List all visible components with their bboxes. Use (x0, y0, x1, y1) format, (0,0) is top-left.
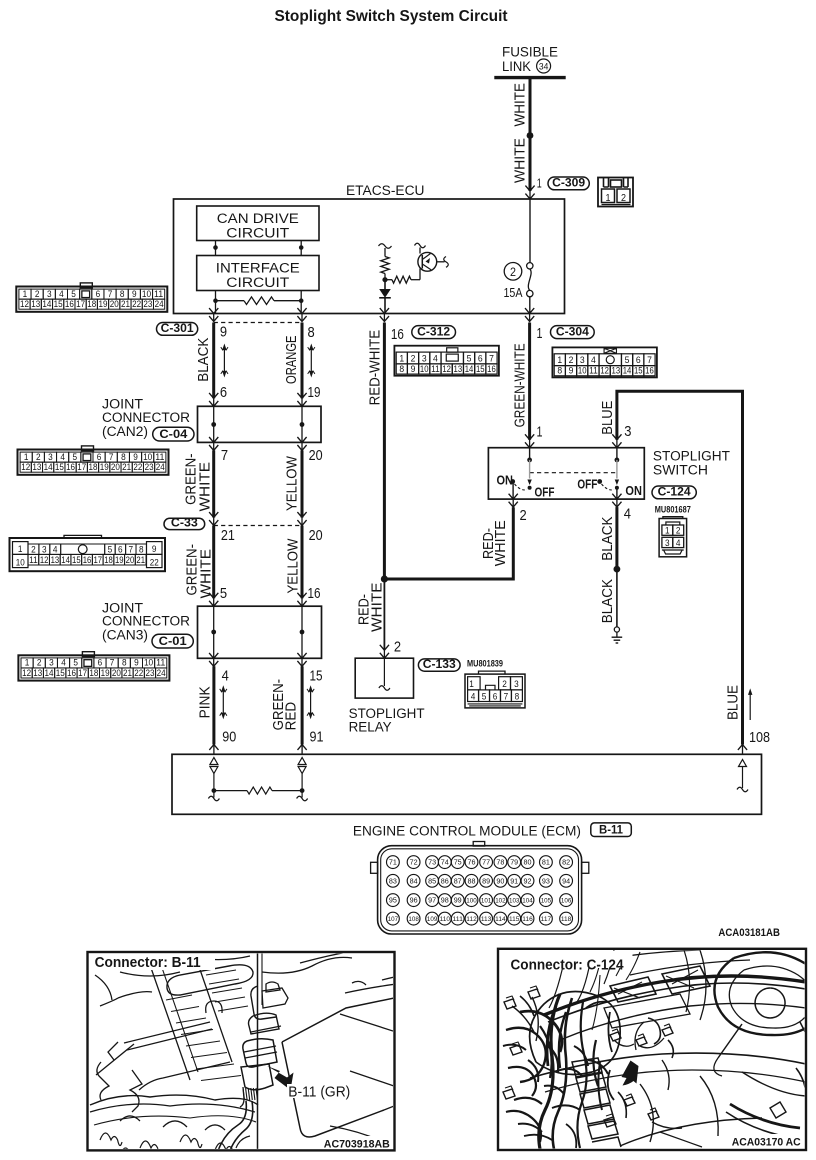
connector C-301 pin diagram (16, 283, 167, 312)
svg-text:5: 5 (482, 691, 487, 702)
joint connector CAN3 box (198, 606, 322, 658)
svg-text:C-312: C-312 (417, 324, 450, 338)
svg-text:5: 5 (72, 452, 77, 462)
svg-text:16: 16 (83, 555, 92, 566)
ETACS exit chevrons (pins 9,8,16,1) (209, 308, 534, 321)
pin 108 (749, 729, 770, 746)
svg-text:90: 90 (496, 876, 504, 885)
svg-text:C-04: C-04 (159, 427, 187, 441)
CAN3 internal wire right (297, 593, 306, 667)
node: resistor/diode/base junction (382, 277, 387, 282)
terminating resistor inside ETACS (216, 297, 302, 305)
wire label ORANGE (284, 335, 300, 384)
svg-text:ACA03181AB: ACA03181AB (718, 927, 780, 939)
svg-text:(CAN2): (CAN2) (102, 424, 148, 440)
svg-text:19: 19 (115, 555, 124, 566)
svg-text:80: 80 (524, 858, 532, 867)
wire YELLOW (C-33 to CAN3 pin 16) (301, 526, 304, 599)
wire: ETACS pin1 to fuse 2 (529, 199, 531, 263)
pin 1 (switch) (537, 424, 543, 441)
svg-text:1: 1 (399, 353, 404, 364)
svg-text:7: 7 (129, 544, 134, 555)
tool number MU801839 (467, 658, 503, 668)
svg-text:9: 9 (411, 364, 416, 375)
svg-text:RELAY: RELAY (349, 720, 392, 736)
connector label C-309 (548, 176, 589, 190)
svg-text:107: 107 (388, 916, 399, 923)
svg-text:BLUE: BLUE (724, 685, 741, 720)
svg-text:2: 2 (37, 658, 42, 668)
switch contact right (pin3-pin4, shown ON) (577, 448, 642, 499)
photo title: Connector: B-11 (90, 954, 215, 971)
wire label BLACK (196, 337, 212, 381)
svg-text:7: 7 (110, 658, 115, 668)
svg-text:21: 21 (221, 527, 235, 544)
pin 5 (220, 585, 227, 602)
wire: CAN DRIVE to INTERFACE (right) (299, 241, 304, 256)
svg-text:23: 23 (143, 299, 152, 309)
svg-text:10: 10 (144, 658, 153, 668)
svg-text:1: 1 (665, 526, 670, 537)
svg-text:15: 15 (56, 668, 65, 678)
svg-text:16: 16 (645, 366, 654, 377)
diode D in ETACS output (379, 280, 391, 314)
svg-text:OFF: OFF (535, 485, 555, 499)
base resistor (horizontal) (385, 269, 420, 284)
wire label RED-WHITE (to relay) (356, 582, 385, 632)
svg-text:C-33: C-33 (171, 515, 198, 529)
svg-text:92: 92 (524, 876, 532, 885)
svg-text:10: 10 (143, 452, 152, 462)
JOINT CONNECTOR (CAN2) label (102, 397, 190, 440)
connector icon C-133 (MU801839) (465, 671, 525, 708)
relay internal wire (379, 658, 390, 690)
junction on BLACK wire (614, 566, 621, 573)
svg-text:WHITE: WHITE (198, 549, 214, 599)
wire label BLACK (upper) (600, 516, 616, 560)
svg-text:1: 1 (18, 544, 23, 555)
svg-text:1: 1 (606, 193, 611, 204)
svg-text:AC703918AB: AC703918AB (324, 1138, 390, 1150)
svg-text:18: 18 (89, 462, 98, 472)
wire BLUE (switch pin 3 to ECM pin 108) (612, 391, 747, 754)
transistor Q (PNP) in ETACS (415, 243, 449, 271)
ENGINE CONTROL MODULE (ECM) label (353, 824, 581, 840)
pin 16 label at C-312 (391, 326, 404, 343)
svg-text:6: 6 (118, 544, 123, 555)
svg-text:24: 24 (157, 668, 166, 678)
svg-text:11: 11 (589, 366, 598, 377)
svg-text:10: 10 (578, 366, 587, 377)
switch mechanical link (dashed) (530, 472, 617, 474)
svg-text:20: 20 (111, 462, 120, 472)
svg-text:3: 3 (422, 353, 427, 364)
pin 16 (CAN3) (308, 585, 321, 602)
wire label GREEN-WHITE (2) (184, 544, 214, 599)
svg-text:MU801839: MU801839 (467, 658, 503, 668)
svg-text:10: 10 (142, 289, 151, 299)
svg-text:87: 87 (454, 876, 462, 885)
svg-text:8: 8 (308, 324, 315, 341)
pin 19 (308, 384, 321, 401)
svg-text:72: 72 (410, 858, 418, 867)
direction arrow (PINK wire) (220, 685, 227, 719)
wire YELLOW (CAN2 pin 20 to C-33 pin 20) (301, 450, 304, 517)
svg-text:4: 4 (471, 691, 476, 702)
wire: INTERFACE to ETACS pins (right) (299, 291, 304, 314)
switch exit chevrons (509, 494, 622, 507)
svg-text:2: 2 (676, 526, 681, 537)
svg-text:C-133: C-133 (423, 657, 456, 671)
connector label C-304 (551, 324, 595, 338)
svg-text:GREEN-WHITE: GREEN-WHITE (511, 343, 528, 427)
svg-text:ENGINE CONTROL MODULE (ECM): ENGINE CONTROL MODULE (ECM) (353, 824, 581, 840)
pin 20 (309, 447, 323, 464)
pin 3 (switch) (624, 423, 631, 440)
svg-text:9: 9 (152, 544, 157, 555)
svg-text:99: 99 (454, 896, 462, 905)
svg-text:13: 13 (33, 668, 42, 678)
svg-text:1: 1 (537, 177, 542, 191)
svg-text:21: 21 (122, 462, 131, 472)
svg-text:4: 4 (624, 505, 631, 522)
svg-text:1: 1 (469, 679, 474, 690)
svg-text:16: 16 (391, 326, 404, 343)
svg-text:3: 3 (48, 452, 53, 462)
svg-text:11: 11 (155, 452, 164, 462)
C-33 crossing chevrons (209, 512, 307, 525)
junction: RED-WHITE branch (381, 575, 388, 582)
svg-text:19: 19 (308, 384, 321, 401)
figure code ACA03170 AC (729, 1134, 803, 1149)
svg-text:5: 5 (220, 585, 227, 602)
ECM connector B-11 pin layout (371, 842, 589, 935)
connector C-04 pin diagram (18, 446, 169, 475)
svg-text:91: 91 (510, 876, 518, 885)
svg-text:9: 9 (569, 366, 574, 377)
wire label RED-WHITE (366, 330, 383, 406)
svg-text:BLACK: BLACK (196, 337, 212, 381)
resistor (vertical) in ETACS output stage (381, 248, 389, 280)
ECM pin 90 terminal (210, 758, 218, 791)
svg-text:11: 11 (156, 658, 165, 668)
svg-text:6: 6 (98, 658, 103, 668)
title: Stoplight Switch System Circuit (275, 8, 508, 25)
svg-text:PINK: PINK (197, 686, 213, 718)
svg-text:B-11: B-11 (599, 823, 623, 837)
svg-text:19: 19 (99, 299, 108, 309)
svg-text:5: 5 (108, 544, 113, 555)
svg-text:8: 8 (557, 366, 562, 377)
svg-text:86: 86 (441, 876, 449, 885)
svg-text:13: 13 (32, 462, 41, 472)
svg-text:12: 12 (442, 364, 451, 375)
svg-text:22: 22 (150, 557, 159, 568)
svg-text:CIRCUIT: CIRCUIT (226, 275, 289, 291)
svg-text:89: 89 (482, 876, 490, 885)
svg-text:108: 108 (749, 729, 770, 746)
svg-text:6: 6 (96, 289, 101, 299)
svg-text:20: 20 (126, 555, 135, 566)
svg-text:95: 95 (389, 896, 397, 905)
svg-text:14: 14 (42, 299, 51, 309)
svg-text:7: 7 (647, 355, 652, 366)
svg-text:20: 20 (309, 447, 323, 464)
svg-text:18: 18 (87, 299, 96, 309)
svg-text:2: 2 (569, 355, 574, 366)
svg-text:12: 12 (22, 668, 31, 678)
svg-text:111: 111 (453, 916, 464, 923)
svg-text:90: 90 (222, 728, 236, 745)
svg-text:Stoplight Switch System Circui: Stoplight Switch System Circuit (275, 8, 508, 25)
svg-text:WHITE: WHITE (513, 83, 529, 127)
connector label C-01 (152, 634, 193, 648)
svg-text:113: 113 (481, 916, 492, 923)
svg-text:7: 7 (221, 447, 228, 464)
svg-text:ETACS-ECU: ETACS-ECU (346, 183, 425, 199)
svg-text:9: 9 (133, 452, 138, 462)
direction arrow (ORANGE wire) (308, 344, 315, 378)
svg-text:108: 108 (408, 916, 419, 923)
svg-text:Connector: B-11: Connector: B-11 (95, 955, 201, 971)
JOINT CONNECTOR (CAN3) label (102, 600, 190, 643)
pin 8 (308, 324, 315, 341)
svg-text:20: 20 (110, 299, 119, 309)
svg-text:82: 82 (562, 858, 570, 867)
wire label WHITE (lower) (513, 138, 529, 183)
svg-text:76: 76 (468, 858, 476, 867)
connector label C-33 (164, 515, 205, 529)
wire RED-WHITE (ETACS pin 16 down) (383, 323, 386, 580)
svg-text:RED: RED (284, 702, 300, 731)
wire WHITE: fusible link to ETACS-ECU pin 1 (525, 78, 534, 199)
wire BLACK (to ground symbol) (616, 569, 618, 627)
svg-text:2: 2 (31, 544, 36, 555)
svg-text:6: 6 (478, 353, 483, 364)
svg-text:20: 20 (112, 668, 121, 678)
svg-text:7: 7 (109, 452, 114, 462)
pin 4 (222, 668, 229, 685)
svg-text:11: 11 (29, 555, 38, 566)
svg-text:3: 3 (580, 355, 585, 366)
svg-text:13: 13 (31, 299, 40, 309)
svg-text:14: 14 (45, 668, 54, 678)
CAN2 internal wire right (297, 393, 306, 451)
connector C-312 pin diagram (394, 346, 499, 376)
engine control module box (172, 754, 762, 814)
wire ORANGE (pin 8 to CAN2 pin 19) (301, 323, 304, 399)
ECM internal terminating resistor (208, 787, 307, 801)
svg-text:93: 93 (542, 876, 550, 885)
ETACS-ECU box (174, 199, 565, 314)
pin 9 (220, 323, 227, 340)
wire BLACK (switch pin 4 to ground) (615, 507, 618, 569)
photo frame: Connector C-124 location (498, 949, 806, 1150)
connector C-33 pin diagram (10, 535, 166, 571)
wire label GREEN-WHITE (183, 453, 213, 511)
wire label YELLOW (285, 456, 301, 511)
callout arrow to C-124 (622, 1061, 639, 1086)
STOPLIGHT SWITCH label (653, 448, 730, 478)
svg-text:22: 22 (133, 462, 142, 472)
wire GREEN-WHITE (CAN2 pin 7 to C-33 pin 21) (212, 450, 215, 517)
svg-text:100: 100 (466, 898, 477, 905)
CAN3 internal wire left (209, 593, 218, 667)
svg-text:79: 79 (510, 858, 518, 867)
svg-text:81: 81 (542, 858, 550, 867)
svg-text:23: 23 (145, 462, 154, 472)
svg-text:C-124: C-124 (658, 485, 691, 499)
svg-text:19: 19 (100, 462, 109, 472)
svg-text:8: 8 (120, 289, 125, 299)
svg-text:1: 1 (25, 658, 30, 668)
svg-text:103: 103 (509, 898, 520, 905)
svg-text:114: 114 (495, 916, 506, 923)
photo title: Connector: C-124 (501, 951, 633, 974)
svg-text:3: 3 (47, 289, 52, 299)
svg-text:23: 23 (145, 668, 154, 678)
svg-text:8: 8 (121, 452, 126, 462)
dashboard line art (C-124) (503, 950, 816, 1149)
wire label BLUE (switch) (599, 401, 616, 435)
connector label C-312 (412, 324, 456, 338)
pin 2 (switch bottom) (520, 507, 527, 524)
STOPLIGHT RELAY label (349, 706, 425, 736)
svg-text:YELLOW: YELLOW (286, 538, 302, 593)
callout arrow to B-11 (267, 1066, 294, 1090)
svg-text:1: 1 (537, 325, 543, 342)
svg-text:3: 3 (665, 538, 670, 549)
svg-text:77: 77 (482, 858, 490, 867)
svg-text:8: 8 (399, 364, 404, 375)
svg-text:4: 4 (433, 353, 438, 364)
dashed connector line C-301 (214, 322, 302, 324)
wire BLACK (pin 9 to CAN2 pin 6) (212, 323, 215, 399)
svg-text:YELLOW: YELLOW (285, 456, 301, 511)
svg-text:74: 74 (441, 858, 449, 867)
svg-text:14: 14 (465, 364, 474, 375)
svg-text:WHITE: WHITE (493, 520, 509, 566)
svg-text:12: 12 (20, 299, 29, 309)
svg-text:2: 2 (35, 289, 40, 299)
svg-text:SWITCH: SWITCH (653, 462, 708, 478)
stoplight relay box (355, 658, 413, 698)
stoplight switch box (488, 448, 644, 499)
svg-text:8: 8 (139, 544, 144, 555)
wire label YELLOW (2) (286, 538, 302, 593)
joint connector CAN2 box (198, 406, 322, 442)
fusible link 34 label (502, 45, 558, 75)
svg-text:10: 10 (16, 557, 25, 568)
svg-text:7: 7 (489, 353, 494, 364)
svg-text:96: 96 (410, 896, 418, 905)
connector C-304 pin diagram (552, 347, 657, 377)
svg-text:5: 5 (467, 353, 472, 364)
wire label RED-WHITE (switch leg) (481, 520, 509, 566)
svg-text:106: 106 (561, 898, 572, 905)
svg-text:115: 115 (509, 916, 520, 923)
svg-text:1: 1 (537, 424, 543, 441)
svg-text:104: 104 (522, 898, 533, 905)
wire PINK (CAN3 pin 4 to ECM pin 90) (209, 666, 218, 754)
connector icon MU801687 (659, 517, 687, 557)
ECM pin 108 terminal (737, 760, 748, 792)
svg-text:78: 78 (496, 858, 504, 867)
svg-text:91: 91 (310, 728, 324, 745)
svg-text:3: 3 (624, 423, 631, 440)
svg-text:1: 1 (24, 452, 29, 462)
svg-text:B-11 (GR): B-11 (GR) (288, 1084, 350, 1100)
svg-text:75: 75 (454, 858, 462, 867)
wire label GREEN-WHITE (switch) (511, 343, 528, 427)
svg-text:15: 15 (476, 364, 485, 375)
dashed connector line C-33 (214, 525, 302, 527)
svg-text:21: 21 (121, 299, 130, 309)
svg-text:2: 2 (502, 679, 507, 690)
svg-text:8: 8 (515, 691, 520, 702)
svg-text:16: 16 (65, 299, 74, 309)
svg-text:21: 21 (136, 555, 145, 566)
svg-text:4: 4 (60, 452, 65, 462)
pin 1 label at C-304 (537, 325, 543, 342)
svg-text:8: 8 (122, 658, 127, 668)
svg-text:17: 17 (76, 299, 85, 309)
svg-text:2: 2 (36, 452, 41, 462)
svg-text:4: 4 (53, 544, 58, 555)
svg-text:4: 4 (222, 668, 229, 685)
svg-text:117: 117 (541, 916, 552, 923)
pin 6 (220, 384, 227, 401)
svg-text:RED-WHITE: RED-WHITE (366, 330, 383, 406)
svg-text:6: 6 (493, 691, 498, 702)
svg-text:85: 85 (428, 876, 436, 885)
svg-text:5: 5 (73, 658, 78, 668)
svg-text:84: 84 (410, 876, 418, 885)
pin 21 (221, 527, 235, 544)
svg-text:11: 11 (154, 289, 163, 299)
svg-text:9: 9 (134, 658, 139, 668)
svg-text:17: 17 (77, 462, 86, 472)
svg-text:OFF: OFF (577, 478, 597, 492)
svg-text:24: 24 (155, 299, 164, 309)
svg-text:10: 10 (420, 364, 429, 375)
svg-text:17: 17 (93, 555, 102, 566)
svg-text:3: 3 (514, 679, 519, 690)
svg-text:34: 34 (539, 62, 549, 73)
ground symbol (612, 627, 623, 643)
svg-text:16: 16 (487, 364, 496, 375)
svg-text:BLUE: BLUE (599, 401, 616, 435)
svg-text:13: 13 (51, 555, 60, 566)
engine bay line art (B-11) (90, 952, 470, 1160)
pin 7 (221, 447, 228, 464)
label B-11 (GR) (287, 1084, 353, 1100)
svg-text:Connector: C-124: Connector: C-124 (511, 958, 624, 974)
svg-text:13: 13 (612, 366, 621, 377)
pin 1 label at C-309 (537, 177, 542, 191)
svg-text:WHITE: WHITE (369, 582, 385, 632)
svg-text:14: 14 (44, 462, 53, 472)
wire GREEN-WHITE (C-33 to CAN3 pin 5) (212, 526, 215, 599)
wire label PINK (197, 686, 213, 718)
svg-text:11: 11 (431, 364, 440, 375)
wire RED-WHITE horizontal branch (384, 507, 513, 579)
svg-text:(CAN3): (CAN3) (102, 628, 148, 644)
svg-text:2: 2 (394, 639, 401, 656)
svg-text:15: 15 (310, 668, 323, 685)
svg-text:4: 4 (61, 658, 66, 668)
connector icon C-309 (598, 178, 633, 207)
